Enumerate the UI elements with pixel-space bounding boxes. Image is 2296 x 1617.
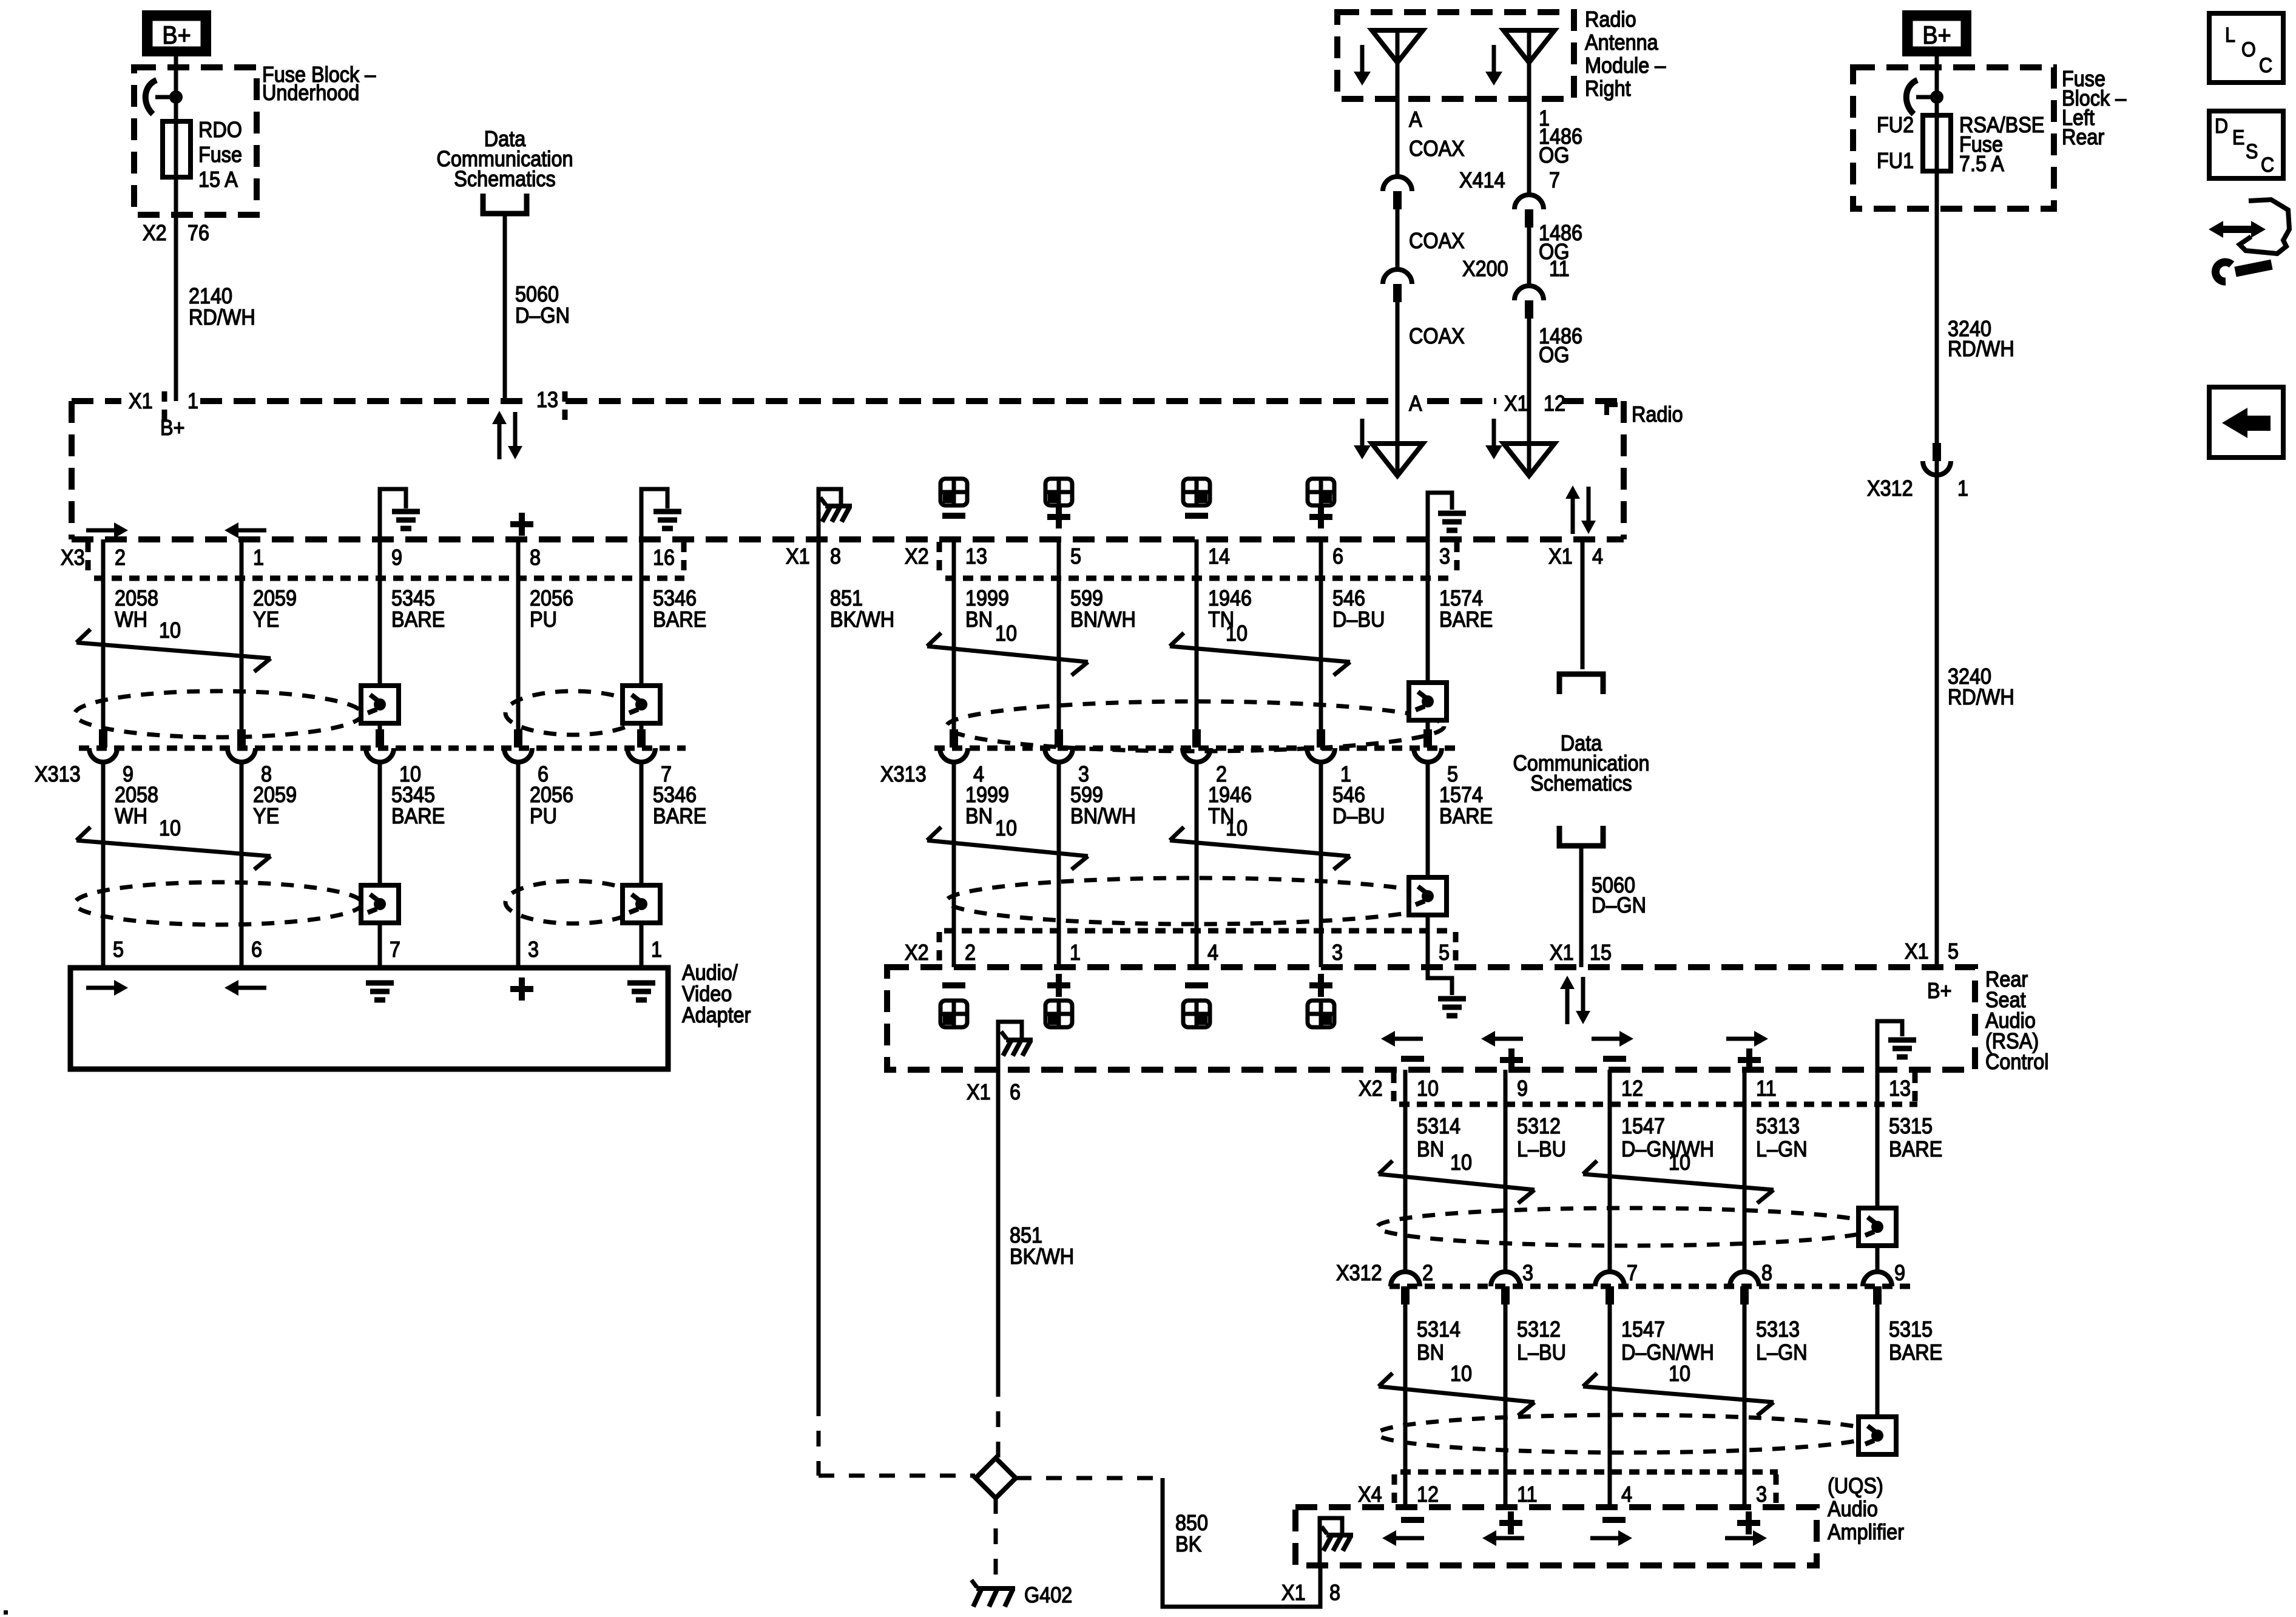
- svg-text:A: A: [1409, 391, 1422, 416]
- wire 5346 BARE upper: [640, 539, 644, 729]
- wire 5314 BN lower: [1403, 1305, 1408, 1507]
- shield rsa upper: [1377, 1208, 1879, 1246]
- radio label: [1607, 405, 1618, 415]
- svg-text:1547: 1547: [1621, 1114, 1665, 1138]
- svg-text:3: 3: [528, 937, 539, 962]
- svg-text:L–GN: L–GN: [1756, 1137, 1808, 1161]
- RSA left arrow pin10: [1395, 1037, 1423, 1041]
- wire 2059 YE upper: [240, 539, 244, 729]
- svg-text:5315: 5315: [1889, 1317, 1933, 1342]
- svg-text:L–BU: L–BU: [1517, 1340, 1566, 1365]
- svg-text:D–GN: D–GN: [1592, 893, 1646, 917]
- radio speaker symbol pin13: [940, 479, 967, 505]
- svg-text:BARE: BARE: [1889, 1340, 1942, 1365]
- amp plus pin11: [1499, 1520, 1522, 1526]
- RSA speaker pin3: [1309, 982, 1332, 988]
- svg-text:16: 16: [653, 545, 675, 570]
- radio antenna symbol left: [1396, 401, 1400, 476]
- svg-text:5313: 5313: [1756, 1317, 1800, 1342]
- svg-text:BARE: BARE: [653, 804, 706, 828]
- svg-text:10: 10: [159, 816, 181, 840]
- AVA ground pin1: [627, 981, 655, 986]
- svg-text:3: 3: [1522, 1261, 1533, 1285]
- icon LOC: [2209, 13, 2283, 83]
- coax wire A (left antenna): [1396, 99, 1400, 177]
- svg-text:X2: X2: [905, 544, 929, 569]
- svg-text:Right: Right: [1585, 76, 1631, 101]
- svg-text:10: 10: [1226, 621, 1248, 646]
- power symbol B+ (right): [1906, 15, 1968, 53]
- svg-text:Audio/: Audio/: [682, 960, 738, 985]
- svg-text:X1: X1: [786, 544, 810, 569]
- svg-text:6: 6: [251, 937, 262, 962]
- svg-text:11: 11: [1756, 1076, 1777, 1101]
- wire 851 dashes (RSA side): [996, 1381, 1001, 1458]
- svg-text:X2: X2: [1359, 1076, 1383, 1101]
- svg-text:5314: 5314: [1417, 1317, 1460, 1342]
- svg-text:1: 1: [1070, 940, 1081, 965]
- svg-text:D–BU: D–BU: [1332, 804, 1385, 828]
- svg-text:599: 599: [1070, 586, 1103, 610]
- icon DESC: [2209, 111, 2283, 178]
- svg-text:2: 2: [1422, 1261, 1433, 1285]
- svg-text:FU2: FU2: [1877, 113, 1914, 137]
- svg-text:1: 1: [651, 937, 662, 962]
- svg-text:11: 11: [1517, 1482, 1538, 1507]
- svg-text:7: 7: [1549, 168, 1560, 192]
- svg-text:4: 4: [1621, 1482, 1632, 1507]
- svg-text:B+: B+: [160, 416, 185, 440]
- antenna symbol right: [1527, 30, 1531, 99]
- drain box 5345 upper: [361, 686, 399, 723]
- wire 546 D-BU upper: [1319, 539, 1323, 729]
- wire 1946 TN upper: [1195, 539, 1199, 729]
- wire 5060 D-GN (top): [503, 214, 507, 401]
- shield left lower (pair): [75, 882, 362, 925]
- svg-text:BARE: BARE: [1889, 1137, 1942, 1161]
- connector X312 pin 1: [1933, 443, 1941, 461]
- wire 1999 BN upper: [952, 539, 956, 729]
- wire 5312 L-BU upper: [1504, 1070, 1508, 1272]
- svg-text:5345: 5345: [391, 586, 435, 610]
- svg-text:YE: YE: [253, 607, 279, 632]
- svg-text:PU: PU: [530, 607, 557, 632]
- svg-text:C: C: [2261, 154, 2274, 177]
- twisted pair marker rsa lower 2: [1583, 1373, 1597, 1386]
- svg-text:D–GN: D–GN: [515, 303, 570, 328]
- svg-text:2056: 2056: [530, 783, 573, 807]
- svg-text:G402: G402: [1024, 1583, 1072, 1607]
- svg-text:B+: B+: [1922, 21, 1951, 49]
- antenna arrow left: [1360, 45, 1365, 72]
- wire 5314 BN upper: [1403, 1070, 1408, 1272]
- svg-text:RDO: RDO: [198, 118, 242, 142]
- svg-text:7: 7: [1627, 1261, 1638, 1285]
- twisted pair marker rsa lower 1: [1379, 1373, 1393, 1386]
- wire 2058 WH lower: [101, 762, 106, 968]
- svg-text:RD/WH: RD/WH: [189, 305, 255, 329]
- wire dash to G402: [994, 1498, 998, 1578]
- svg-text:X1: X1: [1504, 391, 1528, 416]
- radio ground hook pin9: [380, 489, 406, 539]
- radio data arrows top: [498, 422, 502, 459]
- icon back arrow: [2209, 387, 2283, 457]
- svg-text:BARE: BARE: [1439, 607, 1493, 632]
- radio speaker symbol pin6: [1308, 479, 1334, 505]
- wire 850 BK: [1163, 1478, 1320, 1607]
- svg-text:OG: OG: [1539, 143, 1569, 167]
- svg-text:851: 851: [1010, 1223, 1042, 1247]
- svg-text:9: 9: [1517, 1076, 1528, 1101]
- svg-text:10: 10: [1669, 1150, 1690, 1175]
- svg-text:WH: WH: [115, 804, 147, 828]
- svg-text:5346: 5346: [653, 586, 697, 610]
- fuse block left rear box: [1853, 67, 2054, 209]
- svg-text:10: 10: [1417, 1076, 1439, 1101]
- radio ground hook pin16: [641, 489, 667, 539]
- svg-text:8: 8: [830, 544, 841, 569]
- svg-text:B+: B+: [162, 21, 191, 49]
- svg-text:76: 76: [187, 221, 209, 245]
- wire 851 BK/WH from RSA: [996, 1070, 1001, 1381]
- shield mid upper: [947, 701, 1444, 751]
- svg-text:5314: 5314: [1417, 1114, 1460, 1138]
- wire B+ to fuse (right): [1935, 56, 1939, 115]
- amp minus pin12: [1401, 1517, 1424, 1523]
- svg-text:Radio: Radio: [1585, 7, 1636, 32]
- svg-text:5: 5: [1948, 939, 1959, 964]
- svg-text:L–BU: L–BU: [1517, 1137, 1566, 1161]
- svg-text:O: O: [2241, 38, 2256, 61]
- wire 5060 D-GN from radio: [1581, 539, 1585, 669]
- fuse block bus switch: [169, 90, 183, 104]
- svg-text:YE: YE: [253, 804, 279, 828]
- svg-text:Schematics: Schematics: [454, 167, 555, 191]
- svg-text:14: 14: [1208, 544, 1230, 569]
- wire B+ to fuse: [174, 56, 178, 121]
- svg-text:2056: 2056: [530, 586, 573, 610]
- svg-text:X1: X1: [1281, 1581, 1306, 1605]
- svg-text:1547: 1547: [1621, 1317, 1665, 1342]
- wire 1999 BN lower: [952, 762, 956, 967]
- svg-text:7: 7: [390, 937, 400, 962]
- AVA ground pin7: [366, 981, 394, 986]
- wire 599 BN/WH lower: [1057, 762, 1061, 967]
- svg-text:Adapter: Adapter: [682, 1003, 751, 1027]
- svg-text:10: 10: [159, 618, 181, 643]
- connector X200 right: [1514, 286, 1544, 300]
- svg-text:9: 9: [1894, 1261, 1905, 1285]
- coax wire 1486 OG (right antenna): [1527, 99, 1531, 195]
- svg-text:X1: X1: [967, 1080, 991, 1104]
- wire 1547 D-GN/WH lower: [1608, 1305, 1612, 1507]
- wire 1547 D-GN/WH upper: [1608, 1070, 1612, 1272]
- svg-text:2140: 2140: [189, 284, 232, 308]
- svg-text:9: 9: [391, 545, 402, 570]
- svg-text:2: 2: [115, 545, 126, 570]
- wire 5346 BARE lower: [640, 762, 644, 968]
- svg-text:COAX: COAX: [1409, 137, 1465, 161]
- svg-text:10: 10: [995, 816, 1017, 840]
- shield left lower (single): [505, 881, 641, 923]
- audio amplifier box: [1295, 1507, 1817, 1565]
- svg-text:5315: 5315: [1889, 1114, 1933, 1138]
- radio + pin8: [510, 521, 533, 527]
- data link bracket (top): [483, 194, 527, 214]
- svg-text:S: S: [2246, 140, 2258, 163]
- power symbol B+ (left): [146, 15, 208, 53]
- connector X200 left: [1383, 269, 1412, 284]
- audio/video adapter box: [70, 968, 668, 1069]
- svg-text:1: 1: [187, 389, 198, 413]
- RSA left arrow pin9: [1495, 1037, 1523, 1041]
- wire 2056 PU lower: [516, 762, 521, 968]
- svg-text:D–BU: D–BU: [1332, 607, 1385, 632]
- wire 5313 L-GN upper: [1743, 1070, 1747, 1272]
- wire 599 BN/WH upper: [1057, 539, 1061, 729]
- wire 5315 BARE lower: [1876, 1305, 1880, 1417]
- svg-text:6: 6: [1332, 544, 1343, 569]
- svg-text:BARE: BARE: [653, 607, 706, 632]
- svg-text:RD/WH: RD/WH: [1948, 685, 2014, 709]
- wire 1574 BARE lower: [1426, 762, 1430, 967]
- svg-text:15 A: 15 A: [198, 167, 238, 192]
- svg-text:1: 1: [253, 545, 264, 570]
- splice S-diamond: [976, 1458, 1016, 1498]
- wires into RSA: [952, 931, 956, 967]
- wire 5345 BARE upper: [378, 539, 382, 729]
- radio antenna arrow left: [1360, 419, 1365, 445]
- page artifact dot: [4, 1610, 8, 1615]
- amp right arrow pin3: [1725, 1536, 1753, 1541]
- svg-text:850: 850: [1175, 1511, 1208, 1535]
- svg-text:E: E: [2232, 126, 2244, 149]
- svg-text:10: 10: [1450, 1362, 1472, 1386]
- drain box 5315 lower: [1859, 1417, 1896, 1454]
- svg-text:C: C: [2259, 54, 2272, 77]
- RSA right arrow pin11: [1726, 1037, 1754, 1041]
- svg-text:5060: 5060: [515, 282, 559, 306]
- svg-text:BN: BN: [1417, 1137, 1444, 1161]
- svg-text:BK/WH: BK/WH: [1010, 1244, 1074, 1269]
- svg-text:X2: X2: [143, 221, 167, 245]
- radio in arrow (pin1): [238, 528, 266, 533]
- svg-text:BN/WH: BN/WH: [1070, 607, 1136, 632]
- twisted pair marker rsa upper 1: [1379, 1161, 1393, 1174]
- RSA speaker pin4: [1185, 982, 1208, 988]
- svg-text:1574: 1574: [1439, 783, 1483, 807]
- svg-text:BARE: BARE: [391, 804, 445, 828]
- svg-text:5: 5: [1070, 544, 1081, 569]
- svg-text:Module –: Module –: [1585, 53, 1666, 78]
- shield left upper (pair): [75, 691, 362, 737]
- svg-text:X2: X2: [905, 940, 929, 965]
- svg-text:X1: X1: [129, 389, 153, 413]
- wire 5060 D-GN to RSA: [1579, 846, 1584, 967]
- twisted pair marker mid lower 1: [927, 827, 941, 840]
- antenna arrow right: [1492, 45, 1496, 72]
- svg-text:(UQS): (UQS): [1828, 1474, 1883, 1498]
- svg-text:BK: BK: [1175, 1532, 1201, 1556]
- svg-text:OG: OG: [1539, 343, 1569, 367]
- drain box 1574 lower: [1409, 877, 1447, 915]
- antenna symbol left: [1396, 30, 1400, 99]
- svg-text:11: 11: [1549, 257, 1570, 281]
- svg-text:X1: X1: [1905, 939, 1929, 964]
- svg-text:599: 599: [1070, 783, 1103, 807]
- radio antenna module box: [1337, 12, 1574, 99]
- drain box 1574 upper: [1409, 683, 1447, 720]
- shield rsa lower: [1377, 1415, 1875, 1453]
- svg-text:BK/WH: BK/WH: [830, 607, 894, 632]
- wire 3240 RD/WH lower: [1935, 461, 1939, 967]
- svg-text:5345: 5345: [391, 783, 435, 807]
- svg-text:546: 546: [1332, 586, 1365, 610]
- svg-text:5346: 5346: [653, 783, 697, 807]
- svg-text:D: D: [2215, 115, 2228, 138]
- wire 1574 BARE upper: [1426, 539, 1430, 729]
- svg-text:Radio: Radio: [1632, 402, 1683, 427]
- svg-text:COAX: COAX: [1409, 324, 1465, 348]
- svg-text:4: 4: [1592, 544, 1603, 569]
- connector X414 right: [1514, 195, 1544, 209]
- svg-text:2058: 2058: [115, 783, 158, 807]
- svg-text:Schematics: Schematics: [1530, 771, 1632, 795]
- svg-text:RD/WH: RD/WH: [1948, 337, 2014, 361]
- twisted pair marker mid upper 2: [1170, 633, 1184, 646]
- wire 3240 RD/WH upper: [1935, 171, 1939, 447]
- svg-text:3: 3: [1756, 1482, 1767, 1507]
- twisted pair marker left lower: [76, 827, 90, 840]
- svg-text:2059: 2059: [253, 783, 297, 807]
- svg-text:X312: X312: [1336, 1261, 1382, 1285]
- RSA right arrow pin12: [1592, 1037, 1619, 1041]
- svg-text:Amplifier: Amplifier: [1828, 1520, 1904, 1544]
- RSA speaker pin1: [1047, 982, 1070, 988]
- svg-text:BN: BN: [1417, 1340, 1444, 1365]
- wire 2056 PU upper: [516, 539, 521, 729]
- svg-text:Video: Video: [682, 982, 732, 1006]
- drain box 5346 upper: [623, 686, 660, 723]
- data link bracket n (mid): [1559, 674, 1603, 694]
- svg-text:X4: X4: [1358, 1482, 1382, 1507]
- svg-text:WH: WH: [115, 607, 147, 632]
- amp left arrow pin12: [1396, 1536, 1424, 1541]
- twisted pair marker rsa upper 2: [1583, 1161, 1597, 1174]
- radio chassis ground pin X1-8: [819, 489, 841, 539]
- svg-text:15: 15: [1590, 940, 1612, 965]
- svg-text:X312: X312: [1867, 476, 1913, 501]
- wire 850 BK dashes: [1016, 1476, 1163, 1480]
- svg-text:1946: 1946: [1208, 783, 1252, 807]
- svg-text:D–GN/WH: D–GN/WH: [1621, 1137, 1714, 1161]
- wire 5313 L-GN lower: [1743, 1305, 1747, 1507]
- fuse block underhood box: [134, 67, 257, 215]
- svg-text:4: 4: [1207, 940, 1218, 965]
- svg-text:BARE: BARE: [391, 607, 445, 632]
- wire 5345 BARE lower: [378, 762, 382, 968]
- svg-text:X3: X3: [61, 545, 85, 570]
- radio out arrow (pin2): [86, 528, 114, 533]
- RSA chassis ground X1-6: [998, 1022, 1022, 1070]
- radio box: [72, 398, 121, 404]
- svg-text:PU: PU: [530, 804, 557, 828]
- svg-text:13: 13: [965, 544, 987, 569]
- wire 2059 YE lower: [240, 762, 244, 968]
- fuse block bus switch (right): [1930, 90, 1943, 104]
- wire 2140 RD/WH: [174, 177, 178, 401]
- svg-text:5313: 5313: [1756, 1114, 1800, 1138]
- svg-text:Rear: Rear: [2062, 125, 2104, 149]
- radio speaker symbol pin14: [1183, 479, 1210, 505]
- svg-text:3: 3: [1332, 940, 1343, 965]
- RSA speaker pin2: [942, 982, 965, 988]
- twisted pair marker mid upper 1: [927, 633, 941, 646]
- wire 5312 L-BU lower: [1504, 1305, 1508, 1507]
- amp left arrow pin11: [1496, 1536, 1524, 1541]
- radio antenna symbol right: [1527, 401, 1531, 476]
- svg-text:Antenna: Antenna: [1585, 30, 1659, 55]
- svg-text:D–GN/WH: D–GN/WH: [1621, 1340, 1714, 1365]
- svg-text:8: 8: [1761, 1261, 1772, 1285]
- svg-text:851: 851: [830, 586, 863, 610]
- svg-text:FU1: FU1: [1877, 149, 1914, 173]
- svg-text:8: 8: [1329, 1581, 1340, 1605]
- svg-text:5312: 5312: [1517, 1317, 1561, 1342]
- svg-text:6: 6: [1010, 1080, 1021, 1104]
- twisted pair marker mid lower 2: [1170, 827, 1184, 840]
- wire 2058 WH upper: [101, 539, 106, 729]
- svg-text:X1: X1: [1550, 940, 1574, 965]
- svg-text:8: 8: [530, 545, 541, 570]
- svg-text:1: 1: [1957, 476, 1968, 501]
- svg-text:L–GN: L–GN: [1756, 1340, 1808, 1365]
- radio antenna arrow right: [1492, 419, 1496, 445]
- drain box 5315 upper: [1859, 1208, 1896, 1246]
- svg-text:BN: BN: [965, 607, 993, 632]
- drain box 5346 lower: [623, 885, 660, 923]
- RSA ground hook pin13: [1877, 1021, 1902, 1070]
- svg-text:10: 10: [1450, 1150, 1472, 1175]
- svg-text:1999: 1999: [965, 586, 1009, 610]
- fuse RSA/BSE 7.5A: [1935, 115, 1939, 171]
- AVA + pin3: [510, 986, 533, 992]
- svg-text:B+: B+: [1927, 979, 1952, 1003]
- svg-text:13: 13: [536, 388, 558, 412]
- rear seat audio control box: [887, 967, 1975, 1070]
- wire 851 BK/WH dashes (radio side): [817, 1400, 821, 1476]
- svg-text:BN/WH: BN/WH: [1070, 804, 1136, 828]
- svg-text:BARE: BARE: [1439, 804, 1493, 828]
- svg-text:Audio: Audio: [1828, 1497, 1878, 1521]
- connector X414 left: [1383, 177, 1412, 191]
- svg-text:2058: 2058: [115, 586, 158, 610]
- wire 5315 BARE upper: [1876, 1070, 1880, 1272]
- svg-text:12: 12: [1621, 1076, 1643, 1101]
- ground G402: [976, 1586, 1015, 1591]
- shield mid lower: [947, 878, 1444, 924]
- svg-text:A: A: [1409, 107, 1422, 132]
- svg-text:7.5 A: 7.5 A: [1959, 152, 2004, 176]
- drain box 5345 lower: [361, 885, 399, 923]
- radio data arrows pin X1-4: [1571, 496, 1575, 534]
- svg-text:X313: X313: [35, 762, 81, 786]
- amp plus pin3: [1737, 1520, 1760, 1526]
- wire 851 BK/WH upper: [817, 539, 821, 1400]
- svg-text:Fuse: Fuse: [198, 143, 242, 167]
- svg-text:1574: 1574: [1439, 586, 1483, 610]
- AVA out arrow: [86, 986, 114, 990]
